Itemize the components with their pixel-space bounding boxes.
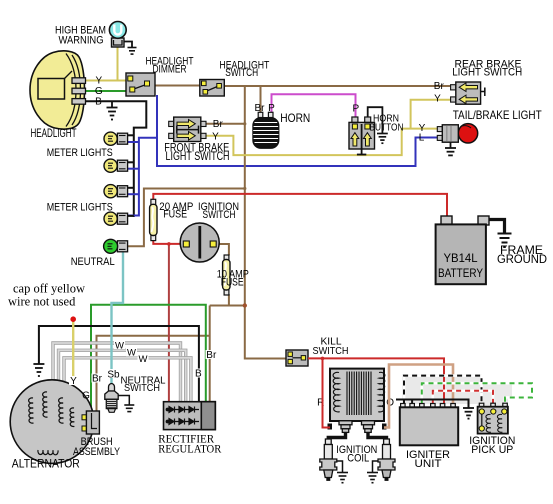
ground tail light [450,142,452,147]
labels W W W on gray wires [114,341,125,349]
svg-text:Br: Br [206,350,217,361]
meter light bulb 4 [104,212,128,225]
svg-text:FUSE: FUSE [163,208,187,220]
fuse 10 amp [224,255,229,260]
wire brown kill-switch vertical [245,86,286,359]
svg-text:SWITCH: SWITCH [203,209,236,221]
wire black igniter ground [396,400,469,408]
wire brown main distribution to rear brake switch [224,85,450,87]
label Sb teal wire [108,369,120,378]
wire brown ignition to 10A fuse and junction [217,244,229,255]
wire red-dash igniter to pickup [433,391,493,404]
gray wire W2 [59,350,186,401]
switch rear brake light [451,85,456,90]
ignition coil [330,369,384,421]
alternator [10,380,94,464]
switch kill [286,350,308,366]
svg-text:LIGHT SWITCH: LIGHT SWITCH [452,67,522,79]
wire brown brush assembly branch [97,336,210,411]
wire yellow capped alternator lead [72,321,74,397]
meter light bulb 3 [104,185,128,198]
svg-text:BATTERY: BATTERY [438,266,483,280]
ground headlight B [111,101,113,107]
wire blue meter branch [128,138,157,216]
battery [441,216,452,225]
tail/brake light [458,124,477,143]
fuse 20 amp [151,199,156,204]
svg-text:WARNING: WARNING [59,34,104,46]
switch headlight dimmer [126,73,155,96]
svg-text:FUSE: FUSE [221,277,244,289]
wire yellow brake light net [206,129,438,156]
svg-text:REGULATOR: REGULATOR [158,442,221,456]
wire brown drop to horn Br [260,86,262,113]
svg-text:TAIL/BRAKE LIGHT: TAIL/BRAKE LIGHT [453,108,543,122]
wire brown front brake Br link [206,123,245,125]
switch horn button [352,117,358,123]
svg-text:wire not used: wire not used [8,295,76,309]
svg-text:YB14L: YB14L [444,251,478,265]
wire black B rectifier to ground [39,326,199,402]
wire high beam yellow drop [117,47,119,81]
gray wire W1 [53,343,181,402]
svg-text:W: W [127,348,136,359]
switch front brake light [169,121,174,126]
ground neutral switch [118,396,129,405]
wire brown neutral feed [127,189,244,247]
wire brown junction horizontal to rectifier drop [210,305,245,307]
wire yellow rear brake branch [411,100,451,129]
wire Y headlight to dimmer [85,80,126,82]
wire red fuse to ignition switch [153,240,183,244]
wire brown dimmer to headlight switch [155,85,200,87]
svg-text:B: B [95,96,102,107]
ground igniter [463,408,474,419]
svg-text:B: B [195,369,202,380]
label Br on brush brown wire [92,374,103,383]
svg-text:SWITCH: SWITCH [124,382,160,394]
horn [258,112,263,117]
labels R O coil [317,399,325,408]
headlight terminals [72,78,86,84]
ignition pick up [479,403,507,407]
label B black wire [195,369,203,378]
wire blue from dimmer down and long run to tail light [157,95,438,166]
svg-text:LIGHT SWITCH: LIGHT SWITCH [166,149,230,163]
ground alternator black [33,364,44,376]
wire magenta horn button P to horn P [272,94,356,117]
svg-text:ALTERNATOR: ALTERNATOR [12,457,80,471]
svg-text:Br: Br [434,81,445,92]
ground horn button [368,107,383,133]
svg-text:METER LIGHTS: METER LIGHTS [47,202,113,214]
coil terminals R and O [328,424,333,430]
svg-text:Br: Br [255,103,266,114]
neutral indicator bulb [104,239,128,253]
ground high beam [124,42,132,48]
svg-text:ASSEMBLY: ASSEMBLY [73,446,121,458]
red cap on yellow wire [70,316,76,322]
svg-text:Br: Br [92,374,103,385]
svg-text:P: P [352,104,359,115]
svg-text:P: P [268,103,275,114]
wire red main battery feed [153,194,447,217]
svg-text:GROUND: GROUND [497,252,547,266]
meter light bulb 1 [104,132,128,145]
gray wire W3 [64,358,191,402]
wire blue bulb prong links [127,142,138,194]
wire teal Sb neutral to neutral switch [112,252,124,384]
meter light bulb 2 [104,159,128,172]
wire black bulb prong links [127,135,133,216]
coil towers [339,421,375,433]
label Y on yellow wire [69,376,78,385]
svg-text:Y: Y [70,376,77,387]
svg-text:L: L [419,132,425,143]
svg-text:BUTTON: BUTTON [370,121,404,133]
headlight [30,51,85,129]
svg-text:W: W [115,340,124,351]
svg-text:cap off yellow: cap off yellow [13,282,85,296]
label Br rectifier brown wire [206,350,217,359]
switch headlight switch [200,80,225,97]
wire G headlight to dimmer [85,90,126,92]
svg-text:DIMMER: DIMMER [153,64,187,76]
svg-text:Y: Y [95,75,102,86]
shaded area behind pickup wiring [402,374,482,404]
ignition switch [180,223,219,262]
svg-text:Sb: Sb [107,370,120,381]
svg-text:G: G [82,390,90,401]
ground spark plug 2 [373,461,379,472]
junction dots brown [243,303,247,307]
svg-text:W: W [139,354,148,365]
neutral switch [109,384,115,391]
ground spark plug 1 [337,461,343,472]
wire dark red to rectifier [168,244,170,402]
wire green alternator field to rectifier [91,305,206,411]
wire B headlight black [85,101,146,217]
igniter unit [401,404,456,408]
spark plug 2 [378,439,395,481]
svg-text:SWITCH: SWITCH [225,67,258,79]
svg-text:Y: Y [434,94,441,105]
svg-text:NEUTRAL: NEUTRAL [71,256,115,268]
rectifier regulator [164,402,216,430]
ground frame [498,234,512,248]
svg-text:COIL: COIL [347,453,369,465]
wire tan coil O to igniter [384,365,453,428]
svg-text:HEADLIGHT: HEADLIGHT [31,126,77,140]
wire red kill switch to coil and igniter [308,358,444,403]
svg-text:HORN: HORN [280,111,310,125]
svg-text:Br: Br [213,119,224,130]
svg-text:UNIT: UNIT [415,458,442,470]
spark plug 1 [320,439,337,481]
brush assembly [82,415,87,420]
lamp high beam warning [112,38,125,47]
svg-text:SWITCH: SWITCH [313,345,349,357]
wire battery to frame ground [489,220,505,234]
coil high tension cables [328,432,345,441]
wire green-dash igniter to pickup [422,383,532,403]
svg-text:METER LIGHTS: METER LIGHTS [47,147,113,159]
svg-text:PICK UP: PICK UP [471,444,513,456]
wire black-dash igniter to pickup [404,376,482,404]
